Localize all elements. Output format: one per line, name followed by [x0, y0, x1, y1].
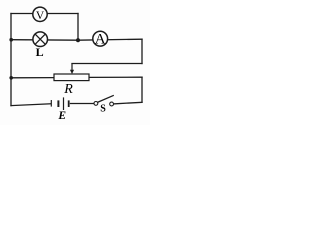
junction node at rheostat branch — [9, 76, 13, 80]
wire: rheostat right end to right vertical — [89, 76, 142, 78]
svg-text:L: L — [36, 45, 44, 59]
junction node at lamp branch — [9, 38, 13, 42]
wire: battery to switch — [71, 103, 95, 105]
battery E — [51, 97, 68, 110]
ammeter A1 — [93, 31, 108, 46]
wire: vertical joining voltmeter branch to node B — [77, 14, 79, 41]
svg-text:E: E — [57, 110, 66, 122]
wire: top branch to voltmeter — [11, 13, 78, 15]
wire: left vertical bus — [10, 14, 12, 106]
rheostat slider arrow — [70, 64, 74, 75]
voltmeter V1 — [33, 7, 47, 21]
wire: horizontal feed to rheostat slider — [72, 63, 142, 65]
svg-text:S: S — [100, 104, 106, 115]
wire: lamp branch — [11, 39, 78, 42]
wire: right vertical from ammeter down — [141, 39, 143, 63]
junction node B — [76, 38, 80, 42]
svg-text:R: R — [63, 82, 73, 97]
wire: switch to right vertical — [114, 102, 142, 104]
lamp L — [33, 32, 48, 47]
wire: rheostat left end to left bus — [11, 77, 54, 79]
wire: ammeter branch — [78, 39, 142, 40]
wire: bottom left to battery — [11, 104, 51, 106]
switch S — [94, 95, 114, 106]
svg-text:A: A — [95, 32, 106, 48]
wire: right vertical to switch — [141, 77, 143, 102]
svg-text:V: V — [36, 10, 45, 22]
rheostat R body — [54, 74, 89, 81]
